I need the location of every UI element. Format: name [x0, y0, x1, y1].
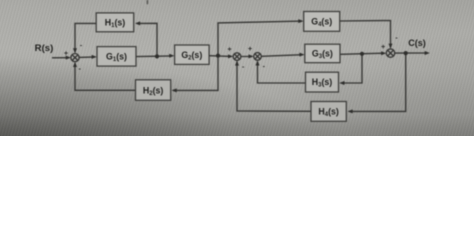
- block H2: [136, 80, 171, 101]
- arrowhead into G1: [92, 55, 97, 59]
- svg-text:G1(s): G1(s): [106, 52, 127, 64]
- block H4: [311, 102, 346, 122]
- svg-text:C(s): C(s): [408, 38, 426, 48]
- svg-text:-: -: [263, 63, 266, 70]
- wire R(s) to summer S1: [52, 57, 70, 59]
- node after G3 (H3 tap): [360, 52, 364, 56]
- arrowhead into H2 right side: [172, 88, 177, 92]
- arrowhead into S4: [381, 51, 386, 55]
- wire G3 to S4: [340, 53, 385, 54]
- arrowhead into G3: [299, 53, 304, 57]
- wire tap down to H3 input: [341, 54, 362, 83]
- svg-text:H4(s): H4(s): [318, 107, 339, 119]
- svg-text:H2(s): H2(s): [143, 85, 164, 97]
- node after G1 (H1 tap): [155, 54, 159, 58]
- svg-text:+: +: [64, 51, 68, 58]
- svg-text:R(s): R(s): [35, 43, 54, 54]
- svg-text:H1(s): H1(s): [105, 18, 126, 30]
- wire H2 output to S1 bottom: [75, 63, 136, 90]
- summing junction S3: [254, 53, 262, 61]
- summing junction S1: [71, 54, 79, 62]
- block G4: [304, 12, 340, 32]
- wire S3 to G3: [261, 55, 303, 57]
- arrowhead into G2: [169, 54, 174, 58]
- arrowhead into S1 bottom (from H2): [73, 62, 77, 67]
- svg-text:G2(s): G2(s): [181, 50, 202, 62]
- node after G2 (G4/H2 tap): [216, 54, 220, 58]
- block G3: [305, 44, 340, 63]
- svg-text:-: -: [395, 35, 398, 42]
- block G1: [97, 47, 136, 67]
- svg-text:G4(s): G4(s): [311, 17, 332, 29]
- summing junction S2: [233, 53, 241, 61]
- arrowhead into H1 right side: [135, 21, 140, 25]
- arrowhead into G4: [298, 19, 303, 23]
- arrowhead into S3: [249, 54, 254, 58]
- wire S1 to G1: [79, 56, 95, 59]
- wire G4 output to S4 top: [340, 21, 391, 48]
- svg-text:G3(s): G3(s): [312, 49, 333, 61]
- svg-text:-: -: [80, 42, 83, 49]
- wire tap up to G4 input: [218, 21, 302, 56]
- wire H1 output to S1 top: [75, 23, 96, 52]
- wire G2 to S2: [209, 55, 231, 58]
- svg-text:+: +: [248, 46, 252, 53]
- arrowhead into S3 bottom (from H3): [256, 60, 260, 65]
- svg-text:H3(s): H3(s): [312, 77, 333, 89]
- arrowhead into S2: [228, 54, 233, 58]
- arrowhead into S4 top (from G4): [389, 44, 393, 49]
- svg-text:-: -: [79, 66, 82, 73]
- wire tap down to H2 input: [173, 56, 218, 91]
- arrowhead C(s) output end: [425, 51, 430, 55]
- arrowhead into S2 bottom (from H4): [235, 60, 239, 65]
- block H1: [96, 13, 134, 32]
- wire tap down to H4 input: [349, 53, 406, 111]
- wire G1 to G2: [136, 55, 173, 58]
- cut-off mark at top edge: [147, 0, 149, 4]
- arrowhead into H4 right side: [348, 109, 353, 113]
- summing junction S4: [386, 49, 394, 57]
- block G2: [175, 45, 210, 64]
- block H3: [306, 72, 339, 92]
- arrowhead into H3 right side: [339, 81, 344, 85]
- arrowhead into S1 top (from H1): [73, 48, 77, 53]
- svg-text:+: +: [381, 44, 385, 51]
- wire H4 output to S2 bottom: [237, 62, 311, 112]
- wire S2 to S3: [241, 55, 252, 57]
- wire S4 to C(s) output: [395, 52, 428, 54]
- svg-text:-: -: [242, 64, 245, 71]
- node on output (H4 tap): [404, 51, 408, 55]
- wire H3 output to S3 bottom: [258, 62, 306, 84]
- svg-text:+: +: [227, 46, 231, 53]
- arrowhead into S1: [66, 56, 71, 60]
- wire tap to H1 input: [137, 23, 157, 56]
